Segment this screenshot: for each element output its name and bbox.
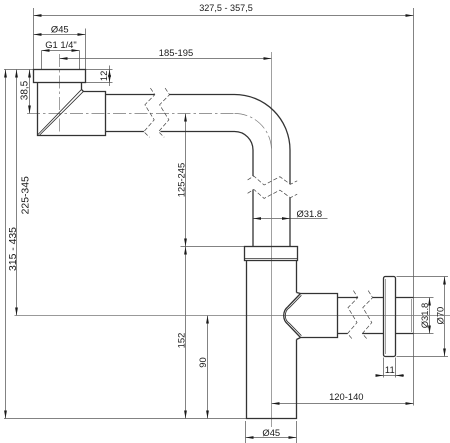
svg-text:11: 11 bbox=[385, 364, 395, 375]
svg-text:12: 12 bbox=[98, 71, 109, 81]
svg-text:120-140: 120-140 bbox=[329, 391, 363, 402]
svg-text:152: 152 bbox=[176, 333, 187, 349]
svg-text:185-195: 185-195 bbox=[159, 47, 193, 58]
svg-text:Ø45: Ø45 bbox=[262, 427, 280, 438]
svg-text:90: 90 bbox=[197, 357, 208, 367]
svg-text:G1 1/4": G1 1/4" bbox=[45, 39, 76, 50]
svg-text:225-345: 225-345 bbox=[21, 176, 32, 214]
svg-text:327,5 - 357,5: 327,5 - 357,5 bbox=[199, 3, 253, 13]
svg-text:315 - 435: 315 - 435 bbox=[8, 227, 19, 271]
svg-text:Ø70: Ø70 bbox=[434, 307, 445, 325]
svg-text:Ø31.8: Ø31.8 bbox=[297, 208, 323, 219]
svg-text:Ø45: Ø45 bbox=[51, 24, 69, 35]
svg-text:Ø31.8: Ø31.8 bbox=[419, 303, 430, 329]
svg-text:38,5: 38,5 bbox=[19, 80, 30, 100]
svg-text:125-245: 125-245 bbox=[176, 163, 187, 197]
